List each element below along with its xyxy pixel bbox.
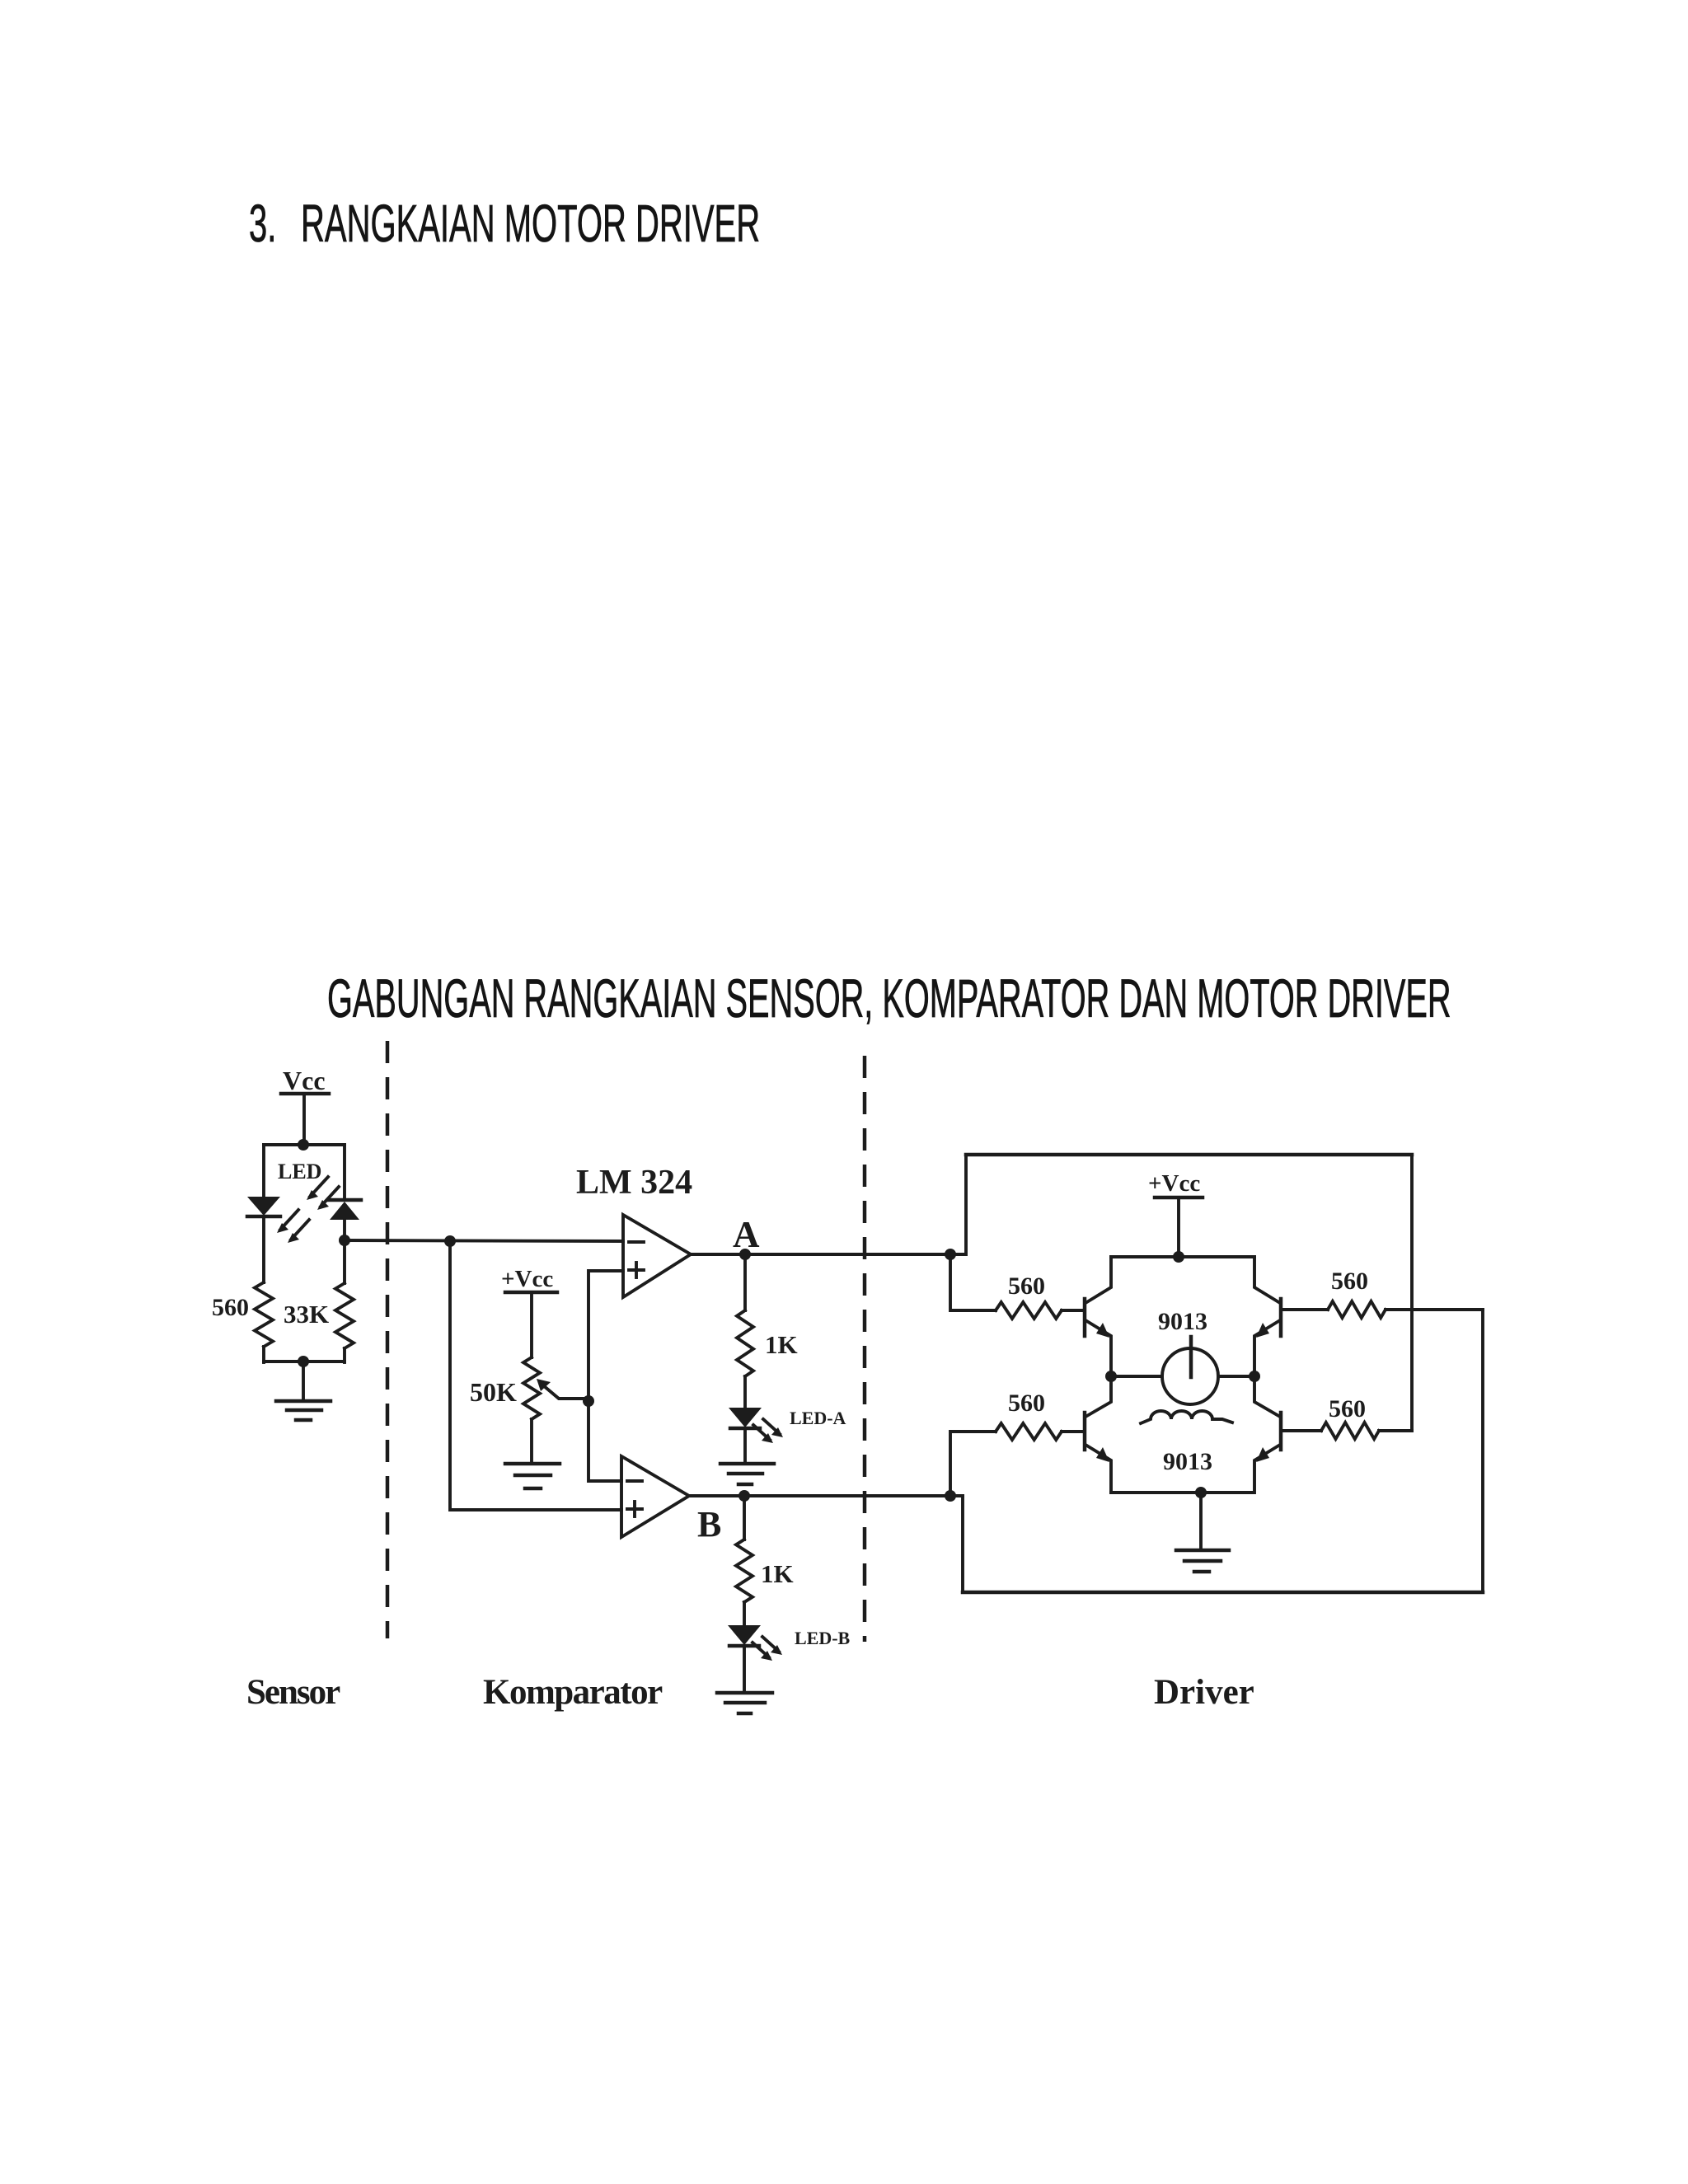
svg-text:560: 560 <box>1008 1390 1045 1417</box>
wire bottom rail up to 560 TR <box>1481 1310 1484 1592</box>
potentiometer 50K <box>470 1357 588 1419</box>
wire top rail down to 560 BR <box>1410 1155 1414 1431</box>
svg-text:33K: 33K <box>284 1300 329 1329</box>
wire to sensor ground <box>302 1361 305 1400</box>
node A <box>733 1214 760 1260</box>
resistor 560 (bottom-right) <box>1281 1395 1412 1439</box>
resistor 33K <box>284 1240 354 1362</box>
svg-text:1K: 1K <box>761 1559 794 1588</box>
inductor (motor winding) <box>1141 1411 1232 1423</box>
wire sensor loop left upper <box>262 1145 265 1197</box>
svg-text:Vcc: Vcc <box>283 1066 326 1095</box>
wire driver inner bottom rail <box>1111 1491 1254 1494</box>
svg-text:9013: 9013 <box>1163 1448 1212 1475</box>
node: +Vcc rail junction <box>1173 1251 1184 1263</box>
op-amp U1B <box>621 1456 689 1537</box>
ground (LED-A) <box>720 1464 774 1484</box>
LED-A <box>729 1408 846 1462</box>
svg-text:Sensor: Sensor <box>246 1673 340 1712</box>
wire sensor loop top <box>264 1143 345 1146</box>
svg-text:560: 560 <box>212 1294 249 1321</box>
node B <box>697 1490 750 1544</box>
node: motor right junction <box>1249 1371 1260 1382</box>
svg-text:A: A <box>733 1214 760 1255</box>
wire sensor loop bottom <box>264 1360 345 1363</box>
diode D2 (right, anode down) <box>328 1200 361 1240</box>
svg-text:50K: 50K <box>470 1377 517 1407</box>
svg-text:560: 560 <box>1329 1395 1366 1422</box>
svg-text:9013: 9013 <box>1158 1308 1207 1335</box>
svg-text:B: B <box>697 1504 721 1544</box>
op-amp U1A <box>623 1215 691 1297</box>
ground (pot) <box>505 1464 560 1488</box>
node: sensor bottom junction <box>298 1356 309 1367</box>
resistor 560 (bottom-left) <box>996 1390 1085 1440</box>
resistor 1K (A) <box>737 1310 798 1408</box>
power +Vcc (comparator) <box>501 1266 557 1357</box>
ground (driver) <box>1176 1550 1229 1572</box>
wire B junction down to bottom rail <box>950 1496 963 1592</box>
resistor 560 (top-left) <box>996 1272 1085 1319</box>
wire driver bottom rail <box>963 1591 1483 1595</box>
power +Vcc (driver) <box>1148 1170 1203 1257</box>
motor M1 <box>1162 1337 1218 1404</box>
wire A to 1K <box>743 1254 747 1310</box>
wire B junction up to 560 BL <box>950 1432 996 1496</box>
node: driver input B junction <box>945 1490 956 1502</box>
transistor Q1 (top-left 9013) <box>1085 1257 1111 1376</box>
wire driver inner top rail <box>1111 1255 1254 1258</box>
ground (sensor) <box>276 1401 331 1420</box>
svg-text:LED-B: LED-B <box>795 1628 851 1648</box>
transistor Q3 (bottom-left 9013) <box>1085 1376 1111 1493</box>
light arrows of D1 <box>277 1210 309 1243</box>
svg-text:1K: 1K <box>765 1330 798 1359</box>
wire U1A + input from reference <box>588 1271 623 1481</box>
transistor Q2 (top-right 9013) <box>1254 1257 1281 1376</box>
wire node B <box>689 1494 963 1497</box>
svg-text:Komparator: Komparator <box>483 1673 663 1712</box>
wire node A <box>691 1253 950 1256</box>
resistor 560 (top-right) <box>1281 1268 1483 1318</box>
svg-text:+Vcc: +Vcc <box>501 1266 553 1292</box>
LED-B <box>728 1625 851 1691</box>
wire down to op-amp U1B + input <box>450 1241 621 1510</box>
node: comparator input junction <box>444 1235 456 1247</box>
node: driver input A junction <box>945 1249 956 1260</box>
svg-text:LED-A: LED-A <box>790 1408 846 1428</box>
ground (LED-B) <box>717 1693 772 1713</box>
wire driver top rail <box>966 1153 1412 1157</box>
node: sensor output <box>339 1235 350 1246</box>
light arrows of D2 <box>307 1177 339 1210</box>
node: sensor top junction <box>298 1139 309 1151</box>
resistor 1K (B) <box>736 1540 794 1626</box>
wire B to 1K <box>743 1496 746 1540</box>
wire pot to ground <box>530 1419 533 1462</box>
power Vcc (sensor) <box>281 1066 329 1146</box>
wire motor left <box>1111 1375 1162 1378</box>
svg-text:560: 560 <box>1008 1272 1045 1300</box>
wire A junction up to top rail <box>950 1155 966 1254</box>
svg-text:+Vcc: +Vcc <box>1148 1170 1200 1197</box>
svg-text:LED: LED <box>278 1160 321 1183</box>
resistor 560 (sensor) <box>212 1282 273 1362</box>
node: motor left junction <box>1105 1371 1117 1382</box>
wire sensor output to comparator <box>345 1240 623 1241</box>
svg-text:Driver: Driver <box>1154 1673 1254 1712</box>
transistor Q4 (bottom-right 9013) <box>1254 1376 1281 1493</box>
diode D1 (left, cathode down) <box>247 1197 280 1282</box>
wire motor right <box>1218 1375 1254 1378</box>
node: reference junction <box>583 1395 594 1407</box>
svg-text:LM 324: LM 324 <box>576 1164 692 1202</box>
wire to driver ground <box>1199 1493 1203 1549</box>
dashed separator 1 <box>386 1041 390 1638</box>
svg-text:560: 560 <box>1331 1268 1368 1295</box>
node: emitter rail junction <box>1195 1487 1207 1498</box>
wire sensor loop right upper <box>343 1145 346 1200</box>
dashed separator 2 <box>863 1056 867 1642</box>
wire A junction down to 560 TL <box>950 1254 996 1310</box>
